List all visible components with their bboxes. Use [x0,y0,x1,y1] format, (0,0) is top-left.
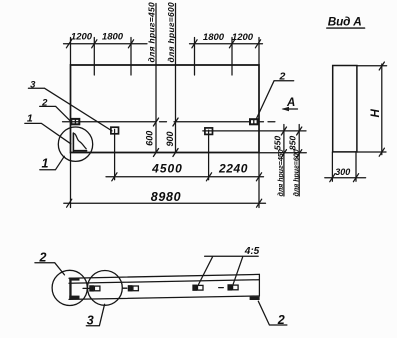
plate axis line [63,121,275,123]
left end channel cap [69,278,79,299]
top dimension line [64,43,263,45]
svg-text:2: 2 [278,71,285,83]
leader label 1 lower [40,156,65,169]
svg-text:Н: Н [370,109,382,118]
leader label 2 [40,106,71,121]
bottom edge extension right [259,152,306,154]
leader 4:5 [198,256,258,285]
section top edge extension [357,65,387,67]
svg-text:3: 3 [87,314,94,328]
bottom view inner edge [69,280,259,284]
plate 3 extension dashed [208,134,210,179]
side plate c [193,285,203,290]
right edge extension down [258,153,260,208]
section bottom edge extension [357,151,386,153]
variant line for h=600 [175,4,177,153]
section view rect [333,66,357,152]
dim line 4500/2240 [106,176,264,178]
svg-text:1200: 1200 [71,32,93,43]
leader label 3 [28,88,112,131]
right dim line 850 [298,125,300,197]
corner angle bracket [73,133,86,151]
svg-text:1: 1 [42,157,49,171]
bottom detail circle 2 [88,271,123,306]
plate 2 extension dashed [114,134,116,180]
svg-text:для hриг=600: для hриг=600 [166,2,176,63]
Vid A underline [327,27,365,29]
svg-text:Вид А: Вид А [328,14,362,28]
leader label 1 upper [25,123,71,143]
svg-text:2: 2 [277,313,285,327]
ticks 600/900 dims [153,118,178,157]
variant line for h=450 [155,4,157,153]
svg-text:2240: 2240 [218,162,248,176]
dim line 8980 [64,202,266,204]
300 dim line [325,177,366,179]
side plate a [90,286,100,291]
main plan view: beam outline [71,65,260,153]
embed plate 3 [205,128,213,134]
embed plate 1 [71,119,79,124]
left edge extension up [70,38,72,66]
svg-text:1200: 1200 [232,32,254,43]
svg-text:2: 2 [41,97,48,108]
leader label 2 top right [257,81,294,119]
svg-text:4500: 4500 [151,162,183,176]
right dim line 550 [283,125,285,197]
bottom leader 3 [86,304,104,326]
svg-text:300: 300 [335,167,350,177]
left edge extension down [70,153,72,208]
lower plate axis line [203,130,306,132]
svg-text:3: 3 [30,79,36,90]
svg-text:для hриг=450: для hриг=450 [277,149,285,196]
bottom right bearing plate [250,297,260,300]
svg-text:для hриг=450: для hриг=450 [147,2,157,63]
embed plate 4 [250,119,258,124]
svg-text:8980: 8980 [151,190,182,204]
bottom view right end [258,274,260,296]
svg-text:550: 550 [272,136,282,151]
bottom view beam top edge [69,274,259,278]
embed plate 2 [111,127,119,134]
svg-text:1800: 1800 [102,32,124,43]
view A arrow [283,108,298,110]
svg-text:2: 2 [39,250,47,264]
svg-text:4:5: 4:5 [244,246,260,257]
svg-text:850: 850 [288,136,298,151]
top dim ticks [66,40,260,48]
right dim ticks [281,127,302,158]
svg-text:А: А [286,97,295,109]
top dim extension stubs [94,38,232,76]
detail circle [58,127,92,161]
bottom view bottom edge [69,296,259,299]
side plate d [219,285,238,290]
svg-text:1: 1 [27,113,33,125]
svg-text:1800: 1800 [203,32,225,43]
side plate b [123,286,139,291]
svg-text:для hриг=600: для hриг=600 [293,149,301,196]
svg-text:900: 900 [165,131,175,146]
svg-text:600: 600 [145,131,155,146]
300 dim extensions [332,152,356,181]
H dim line [381,64,383,155]
bottom detail circle 1 [52,270,87,305]
bottom leader 2 left [35,263,65,275]
plate axis dash [83,287,90,289]
right edge extension up [258,38,260,66]
bottom leader 2 right [258,301,287,325]
